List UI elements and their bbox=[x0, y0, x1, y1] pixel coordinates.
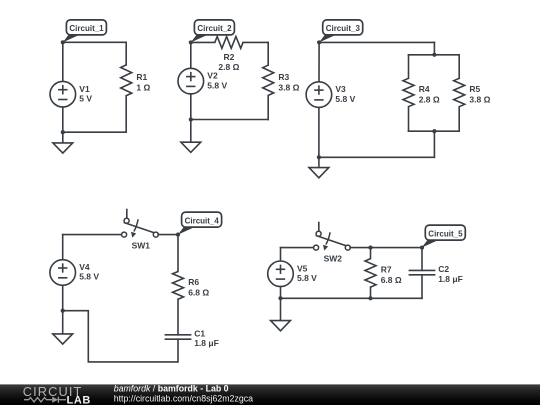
node circuit 1 ground junction bbox=[61, 130, 65, 134]
svg-text:Circuit_5: Circuit_5 bbox=[428, 229, 463, 238]
node Circuit_1 junction bbox=[61, 40, 65, 44]
wire bottom of circuit 2 bbox=[191, 119, 268, 121]
wire down to R6 bbox=[177, 235, 179, 272]
svg-text:SW2: SW2 bbox=[324, 253, 343, 263]
svg-text:R1: R1 bbox=[136, 72, 147, 82]
wire to V2 plus terminal bbox=[190, 42, 192, 68]
wire circuit 2 top left bbox=[191, 41, 215, 43]
svg-text:R4: R4 bbox=[419, 84, 430, 94]
wire bottom of circuit 3 bbox=[319, 156, 435, 158]
wire to V3 plus terminal bbox=[318, 42, 320, 81]
wire to ground 2 bbox=[190, 120, 192, 143]
wire C1 bottom down bbox=[177, 339, 179, 362]
node circuit 2 ground junction bbox=[189, 117, 193, 121]
wire V5 minus to ground node bbox=[280, 287, 282, 299]
svg-text:3.8 Ω: 3.8 Ω bbox=[469, 95, 490, 105]
ground bbox=[309, 168, 329, 178]
resistor R3 3.8 &#937; bbox=[263, 65, 300, 95]
wire bottom of circuit 1 bbox=[63, 131, 126, 133]
node label Circuit_3 bbox=[319, 20, 363, 43]
wire down to R7 bbox=[370, 248, 372, 259]
svg-text:5.8 V: 5.8 V bbox=[207, 80, 227, 90]
svg-text:R6: R6 bbox=[188, 277, 199, 287]
switch SW2 bbox=[314, 222, 351, 264]
ground bbox=[271, 321, 291, 331]
capacitor C2 1.8 &#956;F bbox=[409, 264, 463, 284]
wire V2 minus to bottom node bbox=[190, 94, 192, 120]
wire top of circuit 1 bbox=[63, 41, 126, 43]
resistor R2 2.8 &#937; bbox=[215, 37, 243, 73]
svg-text:Circuit_3: Circuit_3 bbox=[326, 24, 361, 33]
wire to ground 1 bbox=[62, 132, 64, 143]
wire down to C2 bbox=[421, 248, 423, 271]
wire to R5 top bbox=[458, 55, 460, 79]
svg-text:V3: V3 bbox=[335, 84, 346, 94]
wire to R4 top bbox=[408, 55, 410, 79]
svg-text:5.8 V: 5.8 V bbox=[79, 272, 99, 282]
ground bbox=[53, 143, 73, 153]
wire to ground 4 bbox=[62, 311, 64, 334]
wire V4 to SW1 left throw bbox=[63, 234, 122, 236]
wire circuit 4 bottom return bbox=[63, 311, 178, 362]
voltage source V3 5.8 V bbox=[306, 82, 355, 108]
wire R6 to C1 bbox=[177, 299, 179, 335]
svg-text:6.8 Ω: 6.8 Ω bbox=[381, 275, 402, 285]
svg-text:3.8 Ω: 3.8 Ω bbox=[278, 82, 299, 92]
capacitor C1 1.8 &#956;F bbox=[165, 328, 219, 348]
node Circuit_2 junction bbox=[189, 40, 193, 44]
wire C2 bottom down bbox=[421, 275, 423, 299]
voltage source V5 5.8 V bbox=[268, 261, 317, 287]
svg-text:bamfordk / bamfordk - Lab 0: bamfordk / bamfordk - Lab 0 bbox=[114, 383, 229, 393]
wire top of circuit 3 bbox=[319, 41, 434, 43]
svg-text:R2: R2 bbox=[223, 52, 234, 62]
wire R2 to R3 branch bbox=[243, 41, 268, 43]
wire R5 bottom bbox=[458, 107, 460, 132]
node circuit 5 ground junction bbox=[278, 296, 282, 300]
svg-text:2.8 Ω: 2.8 Ω bbox=[419, 95, 440, 105]
wire V3 minus to bottom node bbox=[318, 107, 320, 157]
node parallel top junction bbox=[432, 53, 436, 57]
CircuitLab logo wordmark bbox=[23, 384, 83, 399]
wire to ground 3 bbox=[318, 157, 320, 167]
voltage source V4 5.8 V bbox=[50, 260, 99, 286]
node label Circuit_1 bbox=[63, 20, 107, 42]
node label Circuit_2 bbox=[191, 20, 235, 43]
wire parallel top rail bbox=[409, 54, 460, 56]
svg-text:C1: C1 bbox=[194, 328, 205, 338]
svg-text:http://circuitlab.com/cn8sj62m: http://circuitlab.com/cn8sj62m2zgca bbox=[114, 394, 253, 404]
wire R3 bottom bbox=[267, 95, 269, 119]
voltage source V1 5 V bbox=[50, 81, 92, 107]
wire switch rail to V5 bbox=[280, 248, 282, 261]
wire to V1 plus terminal bbox=[62, 42, 64, 81]
wire V4 minus to ground node bbox=[62, 285, 64, 310]
switch SW1 bbox=[122, 209, 159, 251]
resistor R6 6.8 &#937; bbox=[173, 272, 210, 300]
resistor R7 6.8 &#937; bbox=[365, 259, 402, 288]
node circuit 3 ground junction bbox=[317, 155, 321, 159]
resistor R4 2.8 &#937; bbox=[403, 78, 440, 106]
wire SW2 to C2 branch bbox=[350, 247, 422, 249]
svg-text:5.8 V: 5.8 V bbox=[335, 94, 355, 104]
svg-text:5.8 V: 5.8 V bbox=[297, 273, 317, 283]
node Circuit_4 junction bbox=[176, 233, 180, 237]
wire R4 bottom bbox=[408, 107, 410, 132]
svg-text:LAB: LAB bbox=[67, 394, 91, 405]
svg-text:5 V: 5 V bbox=[79, 93, 92, 103]
wire R7 bottom bbox=[370, 287, 372, 298]
resistor R1 1 &#937; bbox=[121, 65, 151, 96]
node label Circuit_5 bbox=[422, 225, 466, 248]
wire bottom of circuit 5 bbox=[281, 297, 423, 299]
svg-text:R3: R3 bbox=[278, 72, 289, 82]
wire parallel pair down bbox=[433, 131, 435, 157]
svg-text:V4: V4 bbox=[79, 262, 90, 272]
svg-text:C2: C2 bbox=[438, 264, 449, 274]
svg-text:Circuit_1: Circuit_1 bbox=[69, 24, 104, 33]
svg-text:1.8 μF: 1.8 μF bbox=[194, 338, 219, 348]
node Circuit_5 junction bbox=[420, 246, 424, 250]
node R7 top junction bbox=[368, 246, 372, 250]
wire to R1 top bbox=[125, 42, 127, 65]
footer bar bbox=[0, 384, 540, 405]
wire V1 minus to bottom node bbox=[62, 107, 64, 132]
logo diode bbox=[52, 397, 58, 403]
svg-text:R5: R5 bbox=[469, 84, 480, 94]
svg-text:Circuit_4: Circuit_4 bbox=[185, 216, 220, 225]
svg-text:V1: V1 bbox=[79, 84, 90, 94]
svg-text:1 Ω: 1 Ω bbox=[136, 82, 150, 92]
node R7 bottom junction bbox=[368, 296, 372, 300]
voltage source V2 5.8 V bbox=[178, 68, 227, 94]
wire V5 to SW2 left throw bbox=[281, 247, 314, 249]
wire SW1 to Circuit_4 node bbox=[158, 234, 178, 236]
node Circuit_3 junction bbox=[317, 40, 321, 44]
resistor R5 3.8 &#937; bbox=[454, 78, 491, 106]
svg-text:V5: V5 bbox=[297, 263, 308, 273]
wire to R3 top bbox=[267, 42, 269, 65]
svg-text:Circuit_2: Circuit_2 bbox=[197, 24, 232, 33]
wire parallel bottom rail bbox=[409, 130, 460, 132]
svg-text:2.8 Ω: 2.8 Ω bbox=[218, 62, 239, 72]
wire down to parallel pair bbox=[433, 42, 435, 54]
ground bbox=[53, 334, 73, 344]
ground bbox=[181, 142, 201, 152]
svg-text:R7: R7 bbox=[381, 264, 392, 274]
wire R1 bottom to bottom rail bbox=[125, 96, 127, 133]
node label Circuit_4 bbox=[178, 212, 222, 235]
logo resistor zigzag bbox=[24, 398, 52, 402]
node circuit 4 ground junction bbox=[61, 309, 65, 313]
wire to ground 5 bbox=[280, 298, 282, 320]
svg-text:1.8 μF: 1.8 μF bbox=[438, 274, 463, 284]
node parallel bottom junction bbox=[432, 129, 436, 133]
svg-text:6.8 Ω: 6.8 Ω bbox=[188, 287, 209, 297]
svg-text:SW1: SW1 bbox=[132, 240, 151, 250]
svg-text:V2: V2 bbox=[207, 71, 218, 81]
wire switch rail to V4 bbox=[62, 235, 64, 260]
